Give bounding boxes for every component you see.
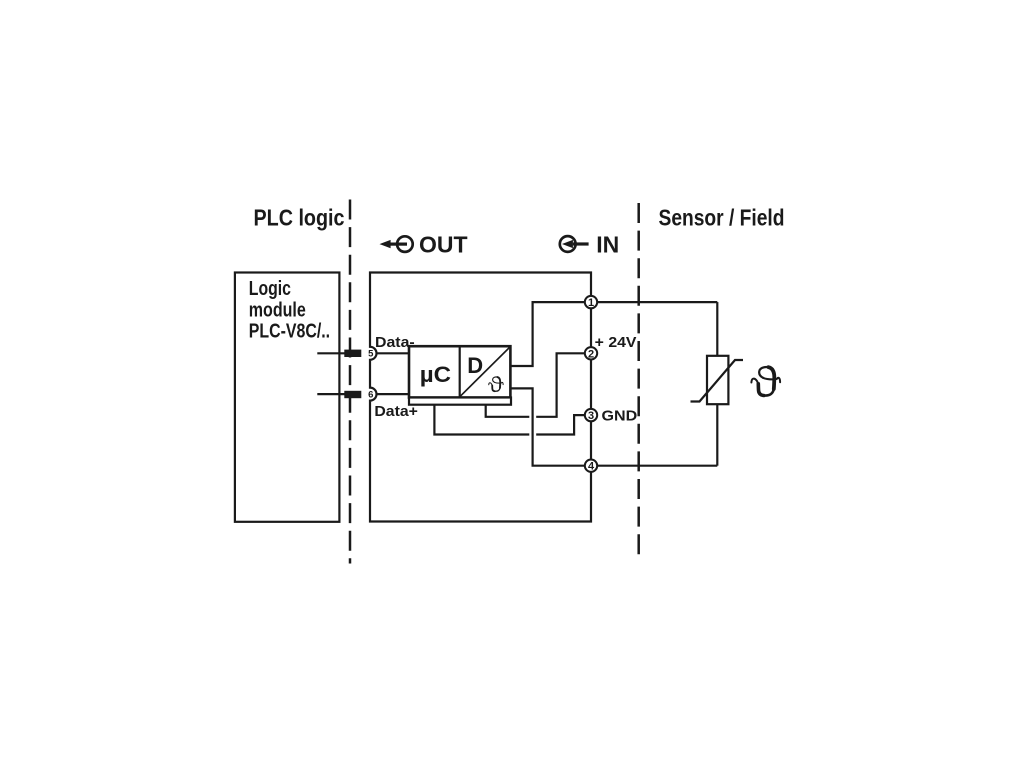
IN symbol (circle with arrow pointing into it) — [560, 236, 589, 252]
wire sensor vertical top — [716, 302, 718, 356]
svg-text:4: 4 — [588, 461, 595, 473]
connector plug on pin5 wire — [344, 350, 361, 357]
svg-text:module: module — [249, 299, 306, 321]
connector plug on pin6 wire — [344, 391, 361, 398]
wire uC right B to terminal 4 — [510, 388, 585, 465]
svg-text:OUT: OUT — [419, 232, 468, 258]
svg-text:+ 24V: + 24V — [595, 334, 637, 351]
wire pin5 from logic module — [317, 352, 352, 354]
transducer main box with pin bumps on left edge — [370, 273, 591, 522]
svg-text:D: D — [467, 353, 483, 378]
label Logic module PLC-V8C/.. — [249, 278, 330, 343]
svg-text:1: 1 — [588, 297, 594, 309]
svg-text:Sensor / Field: Sensor / Field — [659, 205, 785, 231]
thermistor diagonal stroke — [691, 360, 744, 402]
svg-text:GND: GND — [602, 407, 638, 424]
terminal 3 — [585, 409, 597, 422]
svg-text:5: 5 — [368, 349, 374, 360]
terminal 1 — [585, 296, 597, 309]
terminal 4 — [585, 460, 597, 473]
svg-text:Logic: Logic — [249, 278, 291, 300]
wire pin6 from logic module — [317, 393, 352, 395]
wire uC bottom to terminal 2 (+24V) with crossover gap — [486, 404, 530, 417]
wire pin6 to uC — [377, 393, 409, 395]
wire pin5 to uC — [377, 352, 410, 354]
svg-text:PLC-V8C/..: PLC-V8C/.. — [249, 321, 330, 343]
svg-text:µC: µC — [420, 362, 451, 387]
wire sensor vertical bottom — [716, 404, 718, 466]
logic module box — [235, 273, 340, 522]
uC / D converter block U1 — [409, 346, 511, 405]
svg-text:IN: IN — [596, 232, 619, 258]
label theta (sensor) — [751, 367, 780, 396]
dashed separator line left (PLC logic / OUT boundary) — [349, 200, 352, 564]
thermistor RT1 body — [707, 356, 728, 404]
svg-text:3: 3 — [588, 410, 594, 422]
terminal 2 — [585, 347, 597, 360]
wire terminal 4 to sensor — [598, 465, 718, 467]
svg-text:2: 2 — [588, 348, 594, 360]
OUT symbol (circle with left arrow) — [380, 236, 413, 252]
svg-text:6: 6 — [368, 390, 373, 401]
dashed separator line right (IN / Sensor Field boundary) — [637, 203, 640, 562]
wire uC bottom to terminal 3 (GND) with crossover gap — [434, 404, 529, 435]
wire uC right A to terminal 1 — [510, 302, 585, 366]
wire terminal 1 to sensor — [598, 301, 718, 303]
svg-text:PLC logic: PLC logic — [254, 205, 345, 231]
